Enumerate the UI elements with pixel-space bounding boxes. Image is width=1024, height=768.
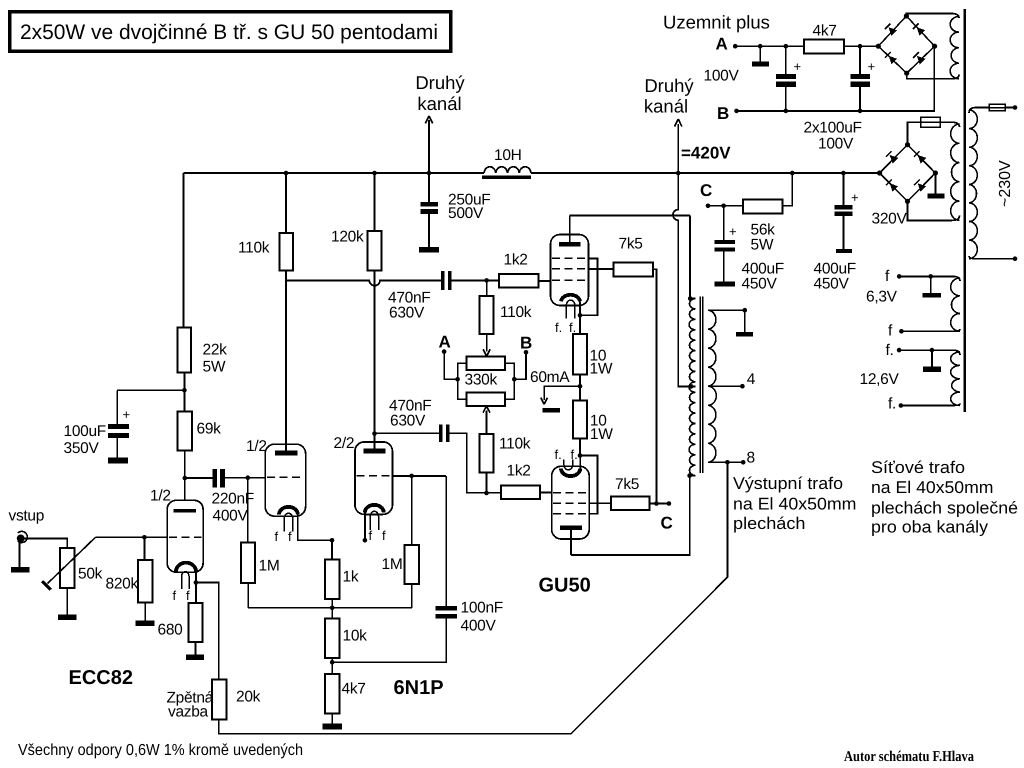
node 7k5-riser: [654, 501, 659, 506]
svg-text:680: 680: [158, 622, 184, 639]
wire 120k top: [374, 173, 376, 231]
node bus 420V: [676, 171, 681, 176]
node A cap2: [858, 44, 863, 49]
svg-text:plechách společné: plechách společné: [871, 499, 1018, 518]
svg-text:vstup: vstup: [9, 508, 45, 525]
wire vstup gnd stem: [18, 542, 20, 567]
svg-text:Autor schématu F.Hlava: Autor schématu F.Hlava: [844, 749, 974, 765]
wire node A: [444, 352, 458, 380]
svg-text:630V: 630V: [390, 413, 426, 430]
wire OT sec top gnd stem: [744, 310, 746, 332]
svg-text:A: A: [439, 333, 451, 352]
svg-text:5W: 5W: [751, 237, 774, 254]
node C upper terminal: [706, 204, 711, 209]
rectifier bridge 100V diode BR: [917, 56, 926, 65]
wire bridge2 right gnd stem: [934, 173, 936, 194]
wire pot left bracket: [458, 363, 467, 399]
tube ECC82 anode: [174, 509, 196, 513]
wire 420V to CT: [673, 173, 695, 386]
svg-text:22k: 22k: [203, 342, 228, 359]
svg-text:1W: 1W: [590, 361, 613, 378]
node C-400uF: [721, 204, 726, 209]
wire feedback: [219, 462, 728, 733]
ground 60mA: [542, 408, 560, 412]
svg-text:Druhý: Druhý: [644, 75, 694, 96]
wire 470nF1 right: [452, 279, 499, 281]
resistor 4k7 psu: [804, 39, 844, 53]
node 63 gnd: [928, 274, 933, 279]
resistor 69k: [178, 411, 192, 450]
wire 1k-10k: [331, 599, 333, 619]
wire cap1 top: [785, 46, 787, 74]
svg-text:2x100uF: 2x100uF: [804, 120, 862, 137]
wire 220nF left: [185, 477, 213, 479]
svg-text:2/2: 2/2: [334, 435, 355, 452]
node B cap2: [858, 109, 863, 114]
wire 6N1P#1 cathode: [298, 515, 332, 541]
wire 10ohm1 top: [579, 315, 581, 334]
wire 10ohm2 bottom: [579, 438, 581, 455]
svg-text:na El 40x50mm: na El 40x50mm: [871, 478, 994, 497]
svg-text:450V: 450V: [814, 276, 850, 293]
wire 100uF top: [116, 390, 118, 424]
wire 126 top: [899, 350, 960, 355]
ground 50k: [58, 615, 77, 621]
wire cathode to fb: [196, 583, 219, 680]
wire OT tap4: [708, 385, 743, 387]
svg-text:+: +: [123, 407, 131, 422]
wire OT primary feed top: [690, 216, 695, 299]
wire 110k3 arrow up: [483, 406, 490, 434]
svg-text:10H: 10H: [494, 147, 522, 164]
wire 1M left top: [247, 478, 249, 543]
wire 1k2-grid: [538, 280, 550, 282]
wire mains to winding: [969, 108, 989, 114]
capacitor 220nF: [213, 469, 218, 488]
wire 60mA arrow: [541, 386, 580, 404]
node C terminal lower: [667, 501, 672, 506]
svg-text:Druhý: Druhý: [415, 72, 465, 93]
wire cap2 bottom: [859, 87, 861, 111]
svg-text:plechách: plechách: [733, 514, 806, 533]
potentiometer 50k body: [60, 548, 74, 588]
wire 56k to bus: [783, 173, 793, 206]
node 8 terminal: [741, 460, 746, 465]
resistor 1k2 #2: [501, 486, 540, 500]
node 100uF junction: [182, 388, 187, 393]
wire GU50#1 g2: [589, 268, 614, 270]
wire OT sec bottom: [708, 461, 743, 463]
wire ECC82 cathode: [195, 572, 197, 583]
svg-text:f: f: [382, 528, 386, 543]
svg-text:1M: 1M: [382, 556, 403, 573]
wire OT sec top: [708, 309, 745, 311]
svg-text:+: +: [729, 224, 737, 239]
resistor 20k: [212, 680, 227, 720]
wire pot right bracket: [505, 363, 514, 399]
svg-text:7k5: 7k5: [615, 476, 639, 493]
ground 12.6V: [923, 367, 941, 372]
wire GU50#2 anode to OT: [571, 476, 690, 555]
node OT sec top: [743, 308, 748, 313]
svg-text:100V: 100V: [704, 68, 740, 85]
svg-text:120k: 120k: [331, 229, 364, 246]
title box: [10, 12, 451, 51]
wire 250uF bottom: [428, 214, 430, 247]
inductor L1 10H: [484, 167, 531, 173]
capacitor 100uF bias #1: [776, 74, 796, 79]
svg-text:kanál: kanál: [644, 96, 688, 117]
node 126 gnd: [930, 348, 935, 353]
svg-text:100uF: 100uF: [64, 423, 106, 440]
wire GU50#1 anode lead: [569, 216, 571, 243]
wire node280 with hop: [286, 280, 441, 285]
wire to 470nF2: [375, 432, 439, 434]
svg-text:820k: 820k: [106, 576, 139, 593]
transformer mains core: [963, 9, 965, 412]
transformer heater 12.6V winding: [951, 352, 960, 406]
svg-text:Síťové trafo: Síťové trafo: [871, 458, 965, 477]
connector vstup jack: [18, 531, 28, 542]
potentiometer 330k upper half: [466, 357, 505, 370]
wire C to 56k: [708, 205, 743, 207]
svg-text:Uzemnit plus: Uzemnit plus: [663, 12, 770, 33]
node B cap1: [784, 109, 789, 114]
rectifier bridge 320V diamond: [880, 145, 936, 202]
wire bridge1 top to winding: [906, 13, 959, 18]
wire 6N1P#2 anode lead: [374, 434, 376, 449]
wire GU50#1 top to OT: [570, 215, 690, 217]
wire 110k2 arrow: [483, 334, 490, 356]
ground 820k: [135, 621, 154, 627]
ground 400uF2: [836, 249, 852, 253]
svg-text:6N1P: 6N1P: [394, 677, 444, 699]
tube GU50 #1 anode: [559, 242, 581, 246]
svg-text:4k7: 4k7: [342, 681, 366, 698]
node cathodes join b: [363, 538, 368, 543]
capacitor 100uF bias #2: [850, 74, 870, 79]
capacitor 470nF #2: [439, 425, 443, 443]
wire 250uF top: [428, 173, 430, 202]
wire 110k1 bottom: [285, 271, 287, 281]
resistor 110k #2: [480, 296, 494, 334]
svg-text:4: 4: [747, 371, 756, 388]
wire 6N1P#1 grid: [248, 477, 265, 479]
node A cap1: [784, 44, 789, 49]
tube GU50 #1 grids dashed: [552, 258, 587, 280]
svg-text:1k2: 1k2: [507, 463, 531, 480]
transformer mains 230V primary: [969, 110, 977, 259]
wire B rail: [737, 46, 935, 111]
svg-text:=420V: =420V: [681, 144, 731, 163]
capacitor 100nF: [436, 606, 457, 611]
wire 110k3 bottom: [486, 473, 488, 493]
wire left rail: [182, 173, 184, 328]
tube 6N1P #2 heater: [370, 511, 378, 530]
wire 22k bottom: [183, 373, 185, 412]
resistor 110k #1: [279, 233, 293, 271]
tube GU50 #2 grids dashed: [553, 493, 588, 514]
rectifier bridge 100V diamond: [878, 16, 934, 73]
svg-text:f.: f.: [555, 320, 562, 335]
wire 470nF2 right: [450, 433, 502, 492]
svg-text:f: f: [369, 528, 373, 543]
wire 680 bottom: [195, 642, 197, 654]
wire 110k2 top: [486, 280, 488, 296]
svg-text:2x50W ve dvojčinné B tř. s GU: 2x50W ve dvojčinné B tř. s GU 50 pentoda…: [20, 21, 438, 44]
node 1k bottom: [330, 606, 335, 611]
resistor 820k: [138, 560, 153, 602]
wire arrow ch2 right: [675, 119, 682, 173]
wire 400uF2 top: [842, 173, 844, 205]
wire 680 top: [195, 583, 197, 604]
tube 6N1P #1 grid dashed: [267, 476, 304, 478]
resistor 56k 5W: [743, 200, 783, 214]
capacitor 400uF #2: [835, 205, 853, 210]
svg-text:330k: 330k: [465, 372, 498, 389]
node OT primary top: [688, 296, 693, 301]
resistor 680: [189, 603, 203, 642]
svg-text:220nF: 220nF: [212, 491, 254, 508]
svg-text:A: A: [716, 35, 728, 54]
wire 1M right bottom: [411, 584, 413, 608]
transformer OT core: [700, 297, 702, 474]
svg-text:pro oba kanály: pro oba kanály: [871, 518, 989, 537]
ground 250uF: [419, 247, 439, 252]
wire GU50#2 cathode lead: [579, 456, 581, 469]
tube 6N1P #2 cathode: [365, 505, 384, 513]
transformer OT secondary winding: [708, 310, 717, 462]
svg-text:8: 8: [747, 450, 755, 467]
rectifier bridge 320V diode TL: [890, 155, 899, 164]
svg-text:C: C: [700, 181, 712, 200]
wire 126 gnd stem: [931, 350, 933, 367]
resistor 120k: [368, 231, 382, 271]
resistor 110k #3: [480, 434, 494, 473]
svg-text:1k: 1k: [343, 569, 359, 586]
wire OT primary bottom stub: [690, 475, 696, 477]
tube ECC82 grid dashed: [169, 536, 202, 538]
rectifier bridge 320V diode TR: [918, 155, 927, 164]
svg-text:400V: 400V: [461, 618, 497, 635]
wire 63 bottom: [901, 329, 960, 331]
node f126 top: [897, 348, 902, 353]
resistor 1k2 #1: [499, 274, 539, 287]
inductor L1 core bar: [482, 176, 531, 179]
node B psu terminal: [734, 109, 739, 114]
tube GU50 #2 cathode: [561, 469, 580, 477]
potentiometer 50k wiper: [48, 537, 96, 583]
tube GU50 #2 anode: [560, 525, 582, 530]
svg-text:Všechny odpory 0,6W 1% kromě u: Všechny odpory 0,6W 1% kromě uvedených: [18, 742, 303, 759]
node A gnd: [758, 44, 763, 49]
wire A gnd stem: [759, 46, 761, 61]
node B terminal: [524, 350, 529, 355]
svg-text:kanál: kanál: [417, 93, 461, 114]
transformer mains 320V winding: [951, 124, 960, 220]
tube GU50 #2 heater: [564, 460, 573, 470]
svg-text:B: B: [520, 334, 532, 353]
tube GU50 #2 envelope: [552, 466, 590, 539]
transformer heater 6.3V winding: [951, 278, 960, 331]
tube GU50 #1 cathode: [561, 295, 580, 302]
tube 6N1P #2 anode: [364, 448, 386, 453]
svg-text:110k: 110k: [500, 304, 532, 321]
wire vstup to pot: [25, 538, 68, 548]
node ECC82 cathode: [194, 580, 199, 585]
wire ECC82 grid: [96, 536, 168, 538]
svg-text:f: f: [275, 529, 279, 544]
node 4 terminal: [740, 384, 745, 389]
svg-text:f: f: [186, 588, 190, 603]
node OT primary CT: [689, 384, 694, 389]
wire 4k7 bottom: [331, 713, 333, 723]
wire 6N1P#1 anode lead: [285, 280, 287, 450]
wire cap1 bottom: [785, 87, 787, 111]
node 120k-tube2: [372, 431, 377, 436]
svg-text:f: f: [288, 529, 292, 544]
fuse mains: [989, 104, 1005, 111]
node A terminal: [442, 349, 447, 354]
wire to 100uF: [117, 389, 184, 391]
resistor 10 1W #1: [573, 334, 587, 374]
resistor 10 1W #2: [573, 401, 587, 439]
svg-text:100V: 100V: [818, 136, 854, 153]
svg-text:1/2: 1/2: [150, 488, 171, 505]
wire A rail: [735, 45, 878, 47]
wire 1M left bottom: [247, 583, 249, 608]
wire 400uF2 bottom: [842, 216, 844, 249]
rectifier bridge 320V diode BL: [890, 183, 899, 192]
tube GU50 #1 envelope: [551, 235, 589, 306]
ground bridge2: [927, 194, 944, 199]
wire 100uF bottom: [116, 438, 118, 458]
svg-text:12,6V: 12,6V: [860, 371, 900, 388]
wire GU50#1 g3 tie: [580, 258, 597, 315]
wire 6N1P#2 grid: [393, 475, 447, 477]
wire GU50#2 g3 tie: [580, 456, 597, 514]
ground vstup: [11, 567, 30, 573]
wire mains live: [1005, 107, 1015, 109]
svg-text:na El 40x50mm: na El 40x50mm: [733, 495, 857, 514]
wire 1k top: [331, 540, 333, 559]
wire cap2 top: [859, 46, 861, 74]
svg-text:f.: f.: [571, 447, 578, 462]
svg-text:+: +: [851, 190, 859, 205]
svg-text:+: +: [794, 59, 802, 74]
svg-text:f.: f.: [569, 320, 576, 335]
wire GU50#2 anode lead: [570, 530, 572, 555]
potentiometer 330k lower half: [466, 393, 505, 406]
node bus 56k: [790, 171, 795, 176]
fuse 320V: [921, 117, 941, 127]
svg-text:6,3V: 6,3V: [866, 289, 898, 306]
wire fuse to winding: [940, 122, 959, 127]
wire bridge2 bottom to winding: [908, 201, 960, 220]
capacitor 470nF #1: [441, 271, 445, 290]
node bus 400uF2: [841, 171, 846, 176]
resistor 1M left: [241, 543, 255, 583]
wire 6N1P#2 cathode: [364, 513, 366, 541]
node mains bottom terminal: [1013, 256, 1018, 261]
svg-text:GU50: GU50: [539, 575, 591, 597]
node OT sec bottom: [725, 460, 730, 465]
rectifier bridge 100V diode BL: [889, 56, 898, 65]
tube ECC82 heater: [182, 572, 190, 589]
wire cathode bus bottom: [248, 607, 412, 609]
svg-text:500V: 500V: [448, 205, 484, 222]
tube 6N1P #1 cathode: [279, 507, 298, 515]
wire 69k bottom: [184, 450, 186, 509]
rectifier bridge 100V diode TL: [888, 27, 897, 36]
capacitor 100uF 350V: [108, 424, 129, 429]
node bus-120k: [372, 171, 377, 176]
node GU50#2 cathode: [578, 453, 583, 458]
node 60mA: [578, 384, 583, 389]
transformer mains 100V winding: [950, 17, 959, 79]
tube 6N1P #2 envelope: [355, 442, 393, 515]
wire 10ohm2 top: [579, 386, 581, 400]
wire 1M right: [411, 476, 413, 545]
node ECC82 anode: [183, 476, 188, 481]
wire grid2 to 100nF: [445, 476, 447, 606]
ground OT secondary: [736, 332, 753, 337]
tube 6N1P #1 envelope: [265, 444, 305, 516]
node grid-820k: [142, 535, 147, 540]
wire 50k bottom: [66, 588, 68, 615]
svg-text:60mA: 60mA: [530, 369, 570, 386]
svg-text:f.: f.: [555, 447, 562, 462]
rectifier bridge 320V diode BR: [918, 183, 927, 192]
wire 400uF1 top: [723, 206, 725, 240]
wire mains bottom: [969, 256, 1015, 259]
wire HT bus left: [183, 172, 484, 174]
capacitor 250uF plate1: [421, 202, 439, 207]
wire 126 bottom: [901, 404, 960, 406]
wire 100nF bottom: [332, 619, 446, 663]
tube 6N1P #1 heater: [284, 513, 292, 531]
capacitor 250uF plate2: [421, 209, 439, 214]
svg-text:450V: 450V: [742, 276, 778, 293]
svg-text:10k: 10k: [343, 628, 368, 645]
wire 400uF1 bottom: [723, 252, 725, 282]
svg-text:110k: 110k: [238, 240, 270, 257]
svg-text:1/2: 1/2: [246, 438, 267, 455]
svg-text:+: +: [868, 59, 876, 74]
wire bridge2 top: [908, 122, 921, 144]
ground 100uF: [108, 458, 128, 464]
wire 820k top: [143, 537, 145, 560]
wire node B: [514, 352, 526, 379]
ground 6.3V: [922, 293, 940, 298]
rectifier bridge 100V diode TR: [917, 27, 926, 36]
ground 4k7: [322, 724, 342, 730]
tube ECC82 envelope: [167, 500, 203, 572]
tube GU50 #1 heater: [566, 300, 575, 318]
wire 110k1 top: [285, 173, 287, 233]
svg-text:Výstupní trafo: Výstupní trafo: [733, 474, 843, 493]
tube ECC82 cathode: [176, 563, 196, 572]
node 10k-4k7: [330, 660, 335, 665]
resistor 22k 5W: [178, 328, 192, 373]
resistor 7k5 #2: [611, 497, 650, 510]
svg-text:f.: f.: [886, 342, 894, 359]
svg-text:400V: 400V: [213, 508, 249, 525]
node f126 bottom: [899, 403, 904, 408]
ground A rail: [752, 62, 769, 67]
svg-text:630V: 630V: [389, 305, 425, 322]
resistor 7k5 #1: [613, 263, 653, 277]
